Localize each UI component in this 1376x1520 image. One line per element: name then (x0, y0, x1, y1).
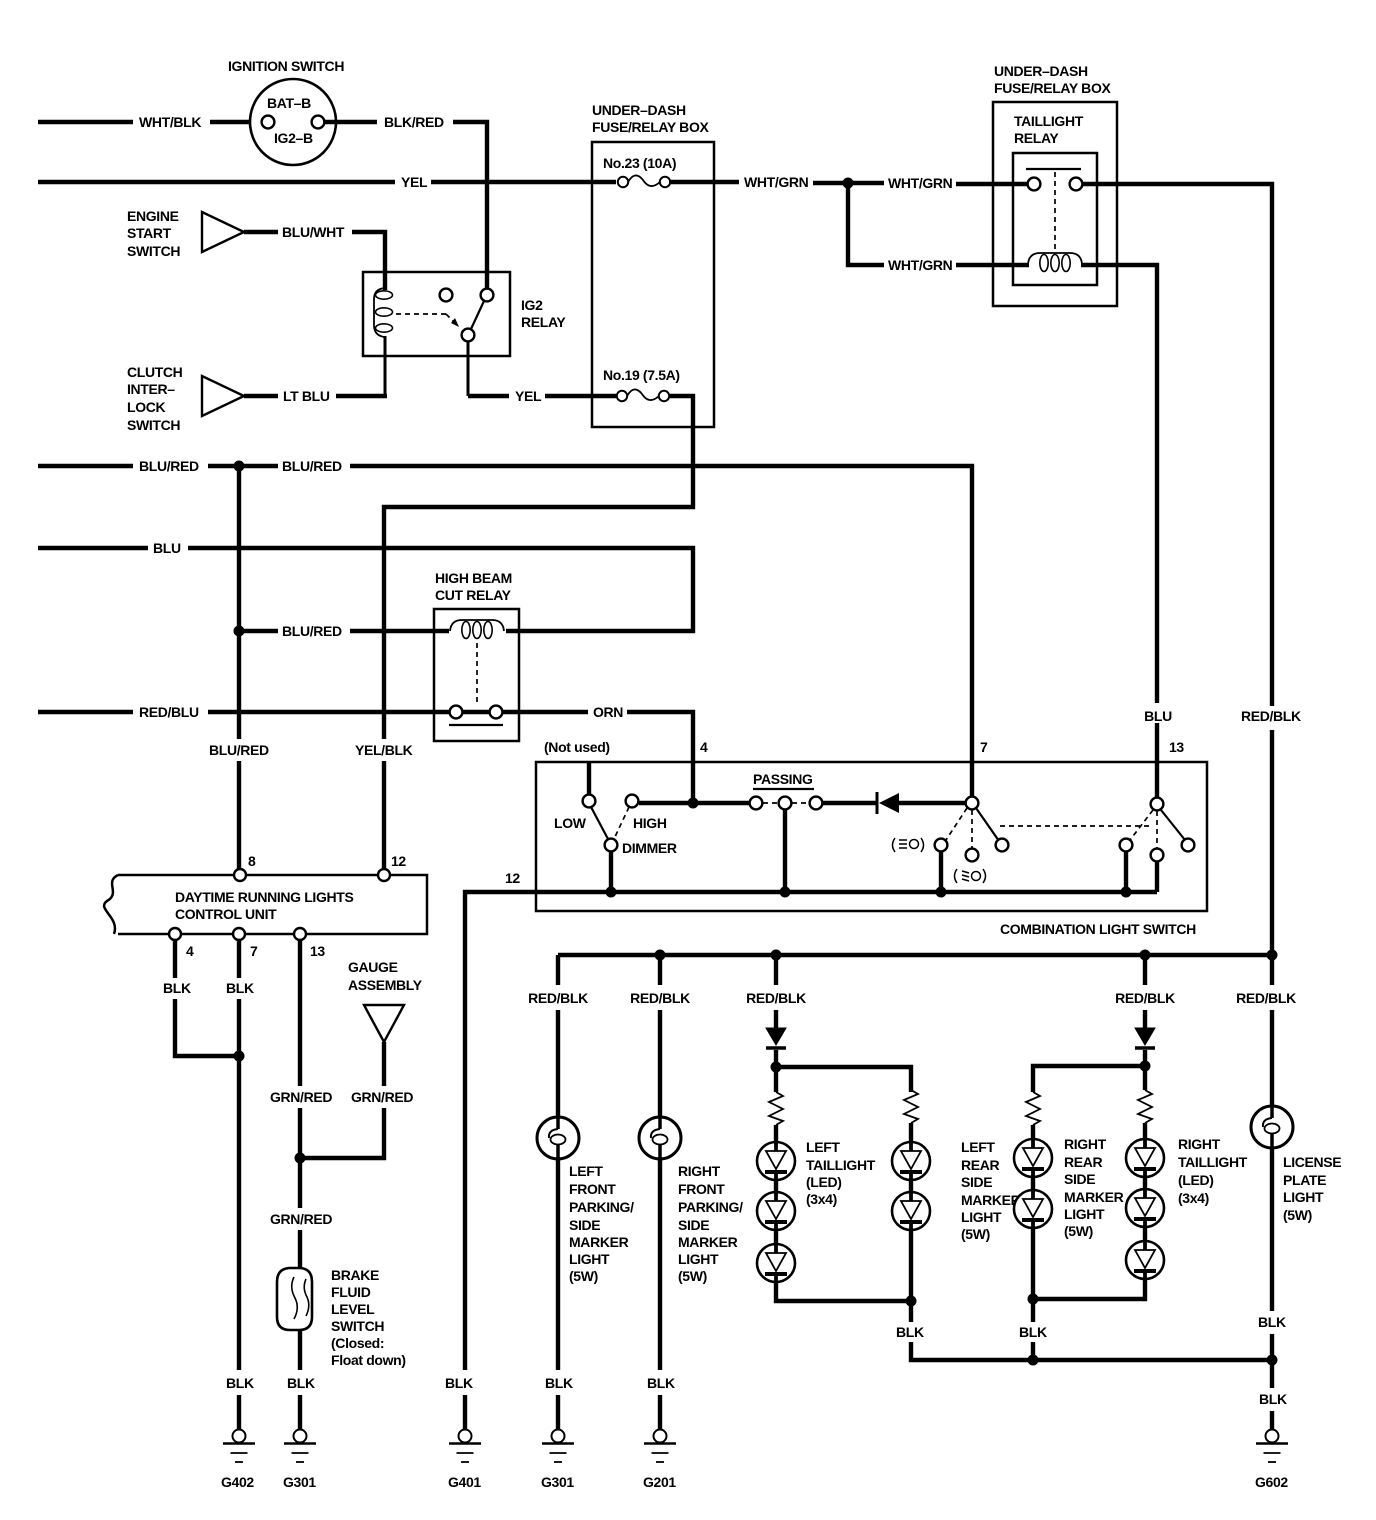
svg-text:13: 13 (310, 943, 325, 959)
ground G602 (1255, 1430, 1288, 1491)
svg-text:LEFT: LEFT (569, 1163, 603, 1179)
wire license to bus (1258, 1148, 1286, 1366)
svg-text:DAYTIME RUNNING LIGHTS: DAYTIME RUNNING LIGHTS (175, 889, 353, 905)
svg-text:(5W): (5W) (678, 1268, 707, 1284)
svg-text:FLUID: FLUID (331, 1284, 371, 1300)
diode right taillight (1135, 1028, 1155, 1048)
wire BLK to G602 (1259, 1360, 1287, 1430)
high beam cut relay contacts (449, 643, 503, 725)
combination light switch box (536, 762, 1207, 937)
svg-text:BLK: BLK (287, 1375, 315, 1391)
svg-text:UNDER–DASH: UNDER–DASH (592, 102, 686, 118)
svg-text:BLK: BLK (545, 1375, 573, 1391)
wire left taillight bottom (776, 1282, 911, 1301)
svg-text:SIDE: SIDE (961, 1174, 992, 1190)
junction pin4 (688, 798, 699, 809)
svg-text:12: 12 (505, 870, 520, 886)
svg-text:12: 12 (391, 853, 406, 869)
engine start switch (127, 208, 244, 259)
svg-text:BLU/RED: BLU/RED (282, 623, 342, 639)
svg-text:LIGHT: LIGHT (678, 1251, 719, 1267)
wire branch right rear marker (1033, 1050, 1145, 1092)
resistor left rear marker (904, 1090, 918, 1123)
wire BLU/WHT (244, 224, 385, 290)
wire gauge GRN/RED (302, 1042, 413, 1158)
wire ORN (503, 704, 693, 803)
svg-text:G402: G402 (221, 1474, 254, 1490)
ground G301 front left (541, 1430, 574, 1491)
headlight switch (935, 797, 1009, 892)
svg-text:HIGH BEAM: HIGH BEAM (435, 570, 512, 586)
svg-text:GAUGE: GAUGE (348, 959, 398, 975)
svg-text:LOW: LOW (554, 815, 587, 831)
wire fuse19 to DRL pin 12 (355, 396, 693, 869)
svg-text:ASSEMBLY: ASSEMBLY (348, 977, 423, 993)
svg-text:LIGHT: LIGHT (1283, 1189, 1324, 1205)
svg-text:PLATE: PLATE (1283, 1172, 1326, 1188)
svg-text:LIGHT: LIGHT (961, 1209, 1002, 1225)
ground G301 (283, 1430, 316, 1491)
wire left LED string (774, 1067, 778, 1092)
wire BLK to G201 (647, 1159, 675, 1430)
svg-text:WHT/GRN: WHT/GRN (744, 174, 809, 190)
svg-text:RELAY: RELAY (521, 314, 566, 330)
fuse No.19 (7.5A) (603, 367, 680, 401)
svg-text:MARKER: MARKER (1064, 1189, 1124, 1205)
icon headlights (955, 869, 986, 883)
svg-text:BLK: BLK (1259, 1391, 1287, 1407)
wire YEL bus (38, 174, 616, 190)
taillight relay coil (1028, 253, 1082, 272)
svg-text:G201: G201 (643, 1474, 676, 1490)
IG2 relay coil (374, 288, 393, 398)
wire RED/BLK right front parking (630, 955, 690, 1118)
svg-text:BLK: BLK (1019, 1324, 1047, 1340)
passing switch (750, 771, 823, 892)
diode left taillight (766, 1028, 786, 1048)
wire right rear marker bottom (1019, 1228, 1047, 1366)
svg-text:(5W): (5W) (1283, 1207, 1312, 1223)
svg-text:DIMMER: DIMMER (622, 840, 677, 856)
svg-text:LEFT: LEFT (961, 1139, 995, 1155)
LEDs left rear side marker (892, 1123, 1021, 1242)
wire BLU/RED to coil (239, 623, 449, 639)
wire left group to bottom bus (896, 1230, 1272, 1360)
wire BLU/RED bus (38, 458, 972, 797)
svg-text:7: 7 (250, 943, 258, 959)
svg-text:(LED): (LED) (806, 1174, 842, 1190)
svg-text:BLK: BLK (226, 1375, 254, 1391)
svg-text:BLU/RED: BLU/RED (139, 458, 199, 474)
svg-text:CUT RELAY: CUT RELAY (435, 587, 512, 603)
dimmer switch LOW/HIGH (554, 795, 677, 892)
wire YEL to fuse 19 (468, 388, 616, 404)
wire relay coil to BLU drop (1081, 265, 1157, 703)
svg-text:WHT/BLK: WHT/BLK (139, 114, 201, 130)
wire RED/BLU bus (38, 704, 489, 720)
svg-text:BLU: BLU (153, 540, 181, 556)
svg-text:4: 4 (186, 943, 194, 959)
svg-text:No.23 (10A): No.23 (10A) (603, 155, 676, 171)
svg-text:G602: G602 (1255, 1474, 1288, 1490)
svg-text:ENGINE: ENGINE (127, 208, 179, 224)
svg-text:IG2–B: IG2–B (274, 130, 313, 146)
svg-text:MARKER: MARKER (961, 1192, 1021, 1208)
svg-text:RED/BLK: RED/BLK (746, 990, 806, 1006)
svg-text:FRONT: FRONT (678, 1181, 725, 1197)
svg-text:IGNITION SWITCH: IGNITION SWITCH (228, 58, 344, 74)
svg-text:GRN/RED: GRN/RED (351, 1089, 413, 1105)
junction BLK (234, 1051, 245, 1062)
junction GRN/RED (295, 1153, 306, 1164)
wire BLU/RED drop to DRL pin 8 (209, 466, 269, 869)
svg-text:SWITCH: SWITCH (127, 417, 180, 433)
taillight switch (1120, 798, 1195, 892)
resistor right taillight (1138, 1090, 1152, 1123)
svg-text:HIGH: HIGH (633, 815, 667, 831)
LEDs left taillight (757, 1125, 876, 1282)
wire RED/BLK right taillight (1115, 955, 1175, 1030)
svg-text:REAR: REAR (961, 1157, 1000, 1173)
svg-text:(5W): (5W) (569, 1268, 598, 1284)
junction BLU/RED coil (234, 626, 245, 637)
svg-text:GRN/RED: GRN/RED (270, 1089, 332, 1105)
wire DRL pin 4 BLK (163, 940, 237, 1056)
wire RED/BLK license (1236, 730, 1296, 1107)
svg-text:Float down): Float down) (331, 1352, 406, 1368)
svg-text:REAR: REAR (1064, 1154, 1103, 1170)
svg-text:PARKING/: PARKING/ (678, 1199, 743, 1215)
svg-text:LIGHT: LIGHT (1064, 1206, 1105, 1222)
svg-text:RELAY: RELAY (1014, 130, 1059, 146)
svg-text:RED/BLU: RED/BLU (139, 704, 199, 720)
under-dash fuse/relay box (taillight relay) (993, 63, 1117, 306)
svg-text:8: 8 (248, 853, 256, 869)
ground G402 (221, 1430, 255, 1491)
svg-text:RED/BLK: RED/BLK (1115, 990, 1175, 1006)
svg-text:BLU/RED: BLU/RED (282, 458, 342, 474)
svg-text:SWITCH: SWITCH (127, 243, 180, 259)
lamp feed bus RED/BLK (558, 950, 1278, 961)
svg-text:RED/BLK: RED/BLK (1241, 708, 1301, 724)
license plate light (1251, 1106, 1341, 1223)
svg-text:LEFT: LEFT (806, 1139, 840, 1155)
svg-text:G401: G401 (448, 1474, 481, 1490)
svg-text:PASSING: PASSING (753, 771, 813, 787)
svg-text:INTER–: INTER– (127, 381, 175, 397)
diode D1 (877, 792, 965, 814)
svg-text:BLK: BLK (163, 980, 191, 996)
wire BLK to G301 front left (545, 1159, 573, 1430)
wire WHT/GRN (669, 174, 1028, 191)
svg-text:G301: G301 (541, 1474, 574, 1490)
wire HIGH to passing (639, 801, 750, 805)
fuse No.23 (10A) (603, 155, 676, 187)
under-dash fuse/relay box (592, 102, 714, 427)
icon parking lights (893, 838, 924, 852)
svg-text:G301: G301 (283, 1474, 316, 1490)
ground G401 (448, 1430, 481, 1491)
svg-text:BLK/RED: BLK/RED (384, 114, 444, 130)
svg-text:BRAKE: BRAKE (331, 1267, 379, 1283)
ignition switch (228, 58, 344, 165)
svg-text:(3x4): (3x4) (1178, 1190, 1209, 1206)
svg-text:BLK: BLK (226, 980, 254, 996)
LEDs right taillight (1126, 1123, 1248, 1279)
svg-text:BLU/RED: BLU/RED (209, 742, 269, 758)
svg-text:BAT–B: BAT–B (267, 95, 311, 111)
svg-text:COMBINATION LIGHT SWITCH: COMBINATION LIGHT SWITCH (1000, 921, 1196, 937)
svg-text:LICENSE: LICENSE (1283, 1154, 1341, 1170)
wire WHT/BLK (38, 114, 262, 130)
wire BLK/RED (325, 114, 487, 289)
svg-text:(Not used): (Not used) (544, 739, 610, 755)
svg-text:MARKER: MARKER (678, 1234, 738, 1250)
svg-text:IG2: IG2 (521, 297, 543, 313)
svg-text:TAILLIGHT: TAILLIGHT (1178, 1154, 1248, 1170)
gang dashed link (1000, 825, 1152, 827)
svg-text:RIGHT: RIGHT (1178, 1136, 1221, 1152)
svg-text:RIGHT: RIGHT (1064, 1136, 1107, 1152)
wire RED/BLK left taillight (746, 955, 806, 1030)
right front parking/side marker light (639, 1117, 743, 1284)
svg-text:FRONT: FRONT (569, 1181, 616, 1197)
wire LT BLU (244, 388, 387, 404)
svg-text:YEL/BLK: YEL/BLK (355, 742, 413, 758)
high beam cut relay coil (450, 620, 504, 639)
IG2 relay (363, 272, 566, 356)
svg-text:MARKER: MARKER (569, 1234, 629, 1250)
svg-text:13: 13 (1169, 739, 1184, 755)
switch internal bus (536, 887, 1157, 898)
svg-text:LIGHT: LIGHT (569, 1251, 610, 1267)
svg-text:4: 4 (700, 739, 708, 755)
svg-text:BLU: BLU (1144, 708, 1172, 724)
wire right taillight bottom (1033, 1279, 1145, 1299)
wire relay contact to RED/BLK drop (1083, 184, 1272, 706)
left front parking/side marker light (537, 1117, 634, 1284)
svg-text:CONTROL UNIT: CONTROL UNIT (175, 906, 277, 922)
svg-text:YEL: YEL (515, 388, 542, 404)
svg-text:BLK: BLK (896, 1324, 924, 1340)
wire DRL pin 13 GRN/RED (270, 940, 332, 1268)
resistor right rear marker (1026, 1092, 1040, 1125)
wire DRL pin 7 BLK to G402 (226, 940, 254, 1430)
svg-text:BLU/WHT: BLU/WHT (282, 224, 345, 240)
svg-text:CLUTCH: CLUTCH (127, 364, 183, 380)
wire right LED string (1143, 1066, 1147, 1090)
wire BLU bus (38, 540, 693, 631)
pin 13 label BLU (1144, 708, 1184, 755)
svg-text:PARKING/: PARKING/ (569, 1199, 634, 1215)
taillight relay contacts (1026, 169, 1082, 252)
svg-text:YEL: YEL (401, 174, 428, 190)
junction right taillight (1140, 1061, 1151, 1072)
svg-text:SIDE: SIDE (569, 1217, 600, 1233)
junction WHT/GRN (843, 178, 854, 189)
svg-text:FUSE/RELAY BOX: FUSE/RELAY BOX (592, 119, 709, 135)
clutch interlock switch (127, 364, 244, 433)
svg-text:RIGHT: RIGHT (678, 1163, 721, 1179)
svg-text:TAILLIGHT: TAILLIGHT (806, 1157, 876, 1173)
junction BLU/RED (234, 461, 245, 472)
svg-text:RED/BLK: RED/BLK (528, 990, 588, 1006)
svg-text:SWITCH: SWITCH (331, 1318, 384, 1334)
wire RED/BLK left front parking (528, 955, 588, 1118)
svg-text:7: 7 (980, 739, 988, 755)
high beam cut relay (434, 570, 519, 741)
daytime running lights control unit (104, 853, 427, 959)
svg-text:ORN: ORN (593, 704, 623, 720)
resistor left taillight (769, 1092, 783, 1125)
pin 12 wire to G401 (445, 870, 536, 1430)
pin (Not used) (544, 739, 610, 795)
svg-text:FUSE/RELAY BOX: FUSE/RELAY BOX (994, 80, 1111, 96)
svg-text:RED/BLK: RED/BLK (1236, 990, 1296, 1006)
wire WHT/GRN branch to relay coil (848, 183, 1029, 273)
wire passing to diode (823, 801, 876, 805)
brake fluid level switch (277, 1267, 406, 1368)
wire BLK to G301 (287, 1330, 315, 1430)
svg-text:WHT/GRN: WHT/GRN (888, 175, 953, 191)
svg-text:BLK: BLK (1258, 1314, 1286, 1330)
svg-text:(3x4): (3x4) (806, 1191, 837, 1207)
svg-text:RED/BLK: RED/BLK (630, 990, 690, 1006)
svg-text:START: START (127, 225, 172, 241)
gauge assembly (348, 959, 423, 1042)
svg-text:LOCK: LOCK (127, 399, 166, 415)
svg-text:SIDE: SIDE (678, 1217, 709, 1233)
svg-text:(5W): (5W) (961, 1226, 990, 1242)
ground G201 (643, 1430, 676, 1491)
svg-text:No.19 (7.5A): No.19 (7.5A) (603, 367, 680, 383)
svg-text:SIDE: SIDE (1064, 1171, 1095, 1187)
svg-text:LT BLU: LT BLU (283, 388, 330, 404)
svg-text:LEVEL: LEVEL (331, 1301, 375, 1317)
svg-text:GRN/RED: GRN/RED (270, 1211, 332, 1227)
svg-text:(Closed:: (Closed: (331, 1335, 384, 1351)
svg-text:BLK: BLK (445, 1375, 473, 1391)
svg-text:TAILLIGHT: TAILLIGHT (1014, 113, 1084, 129)
wire branch left rear marker (776, 1050, 911, 1092)
svg-text:BLK: BLK (647, 1375, 675, 1391)
IG2 relay switch (396, 289, 493, 396)
LEDs right rear side marker (1014, 1125, 1124, 1239)
svg-text:WHT/GRN: WHT/GRN (888, 257, 953, 273)
svg-text:UNDER–DASH: UNDER–DASH (994, 63, 1088, 79)
junction left taillight (771, 1062, 782, 1073)
svg-text:(LED): (LED) (1178, 1172, 1214, 1188)
svg-text:(5W): (5W) (1064, 1223, 1093, 1239)
